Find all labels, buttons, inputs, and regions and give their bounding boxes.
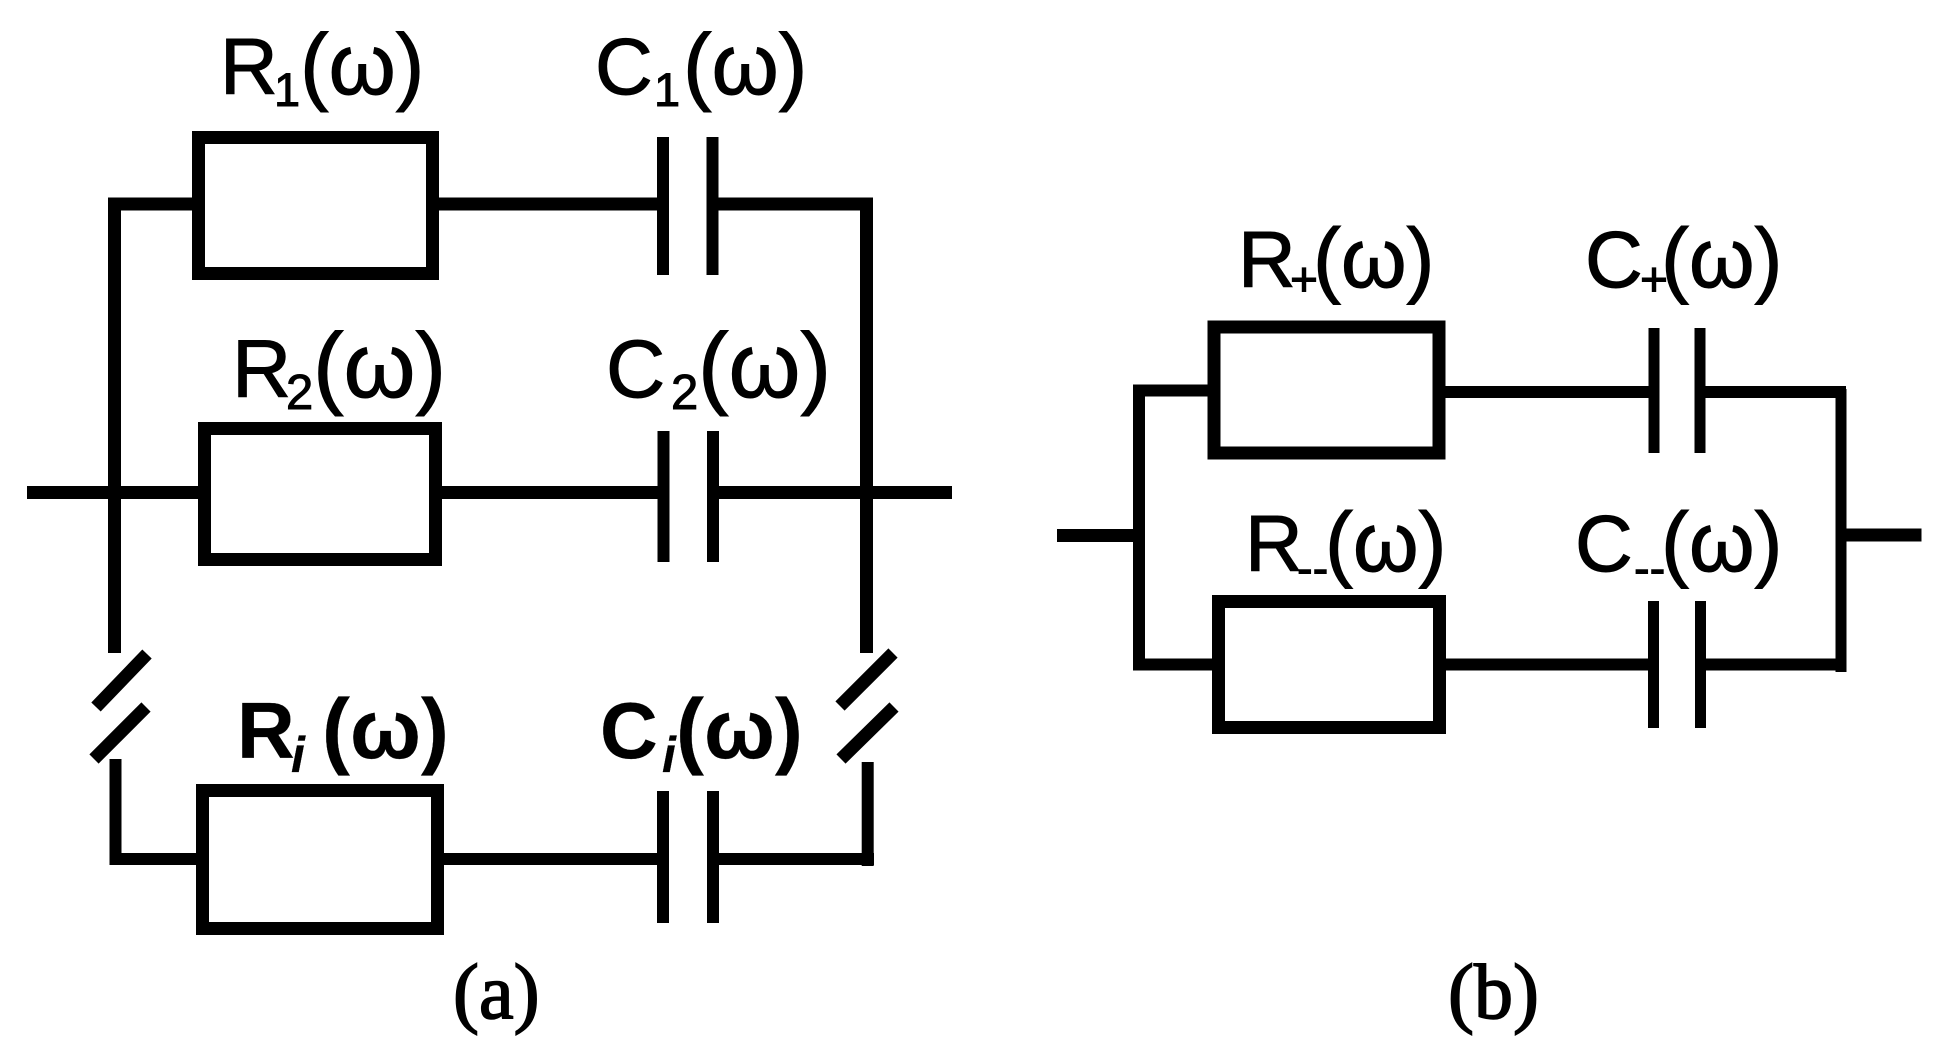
svg-text:C: C <box>595 22 653 111</box>
label R+(omega) <box>1238 211 1435 307</box>
svg-text:1: 1 <box>654 63 680 116</box>
capacitor C2 <box>664 431 714 562</box>
svg-text:(ω): (ω) <box>683 17 807 113</box>
svg-text:R: R <box>237 686 295 775</box>
wire: left rail lower segment of circuit (a) <box>110 759 122 865</box>
svg-text:C: C <box>1575 499 1633 588</box>
resistor R+ <box>1214 327 1439 453</box>
resistor Ri <box>203 791 438 929</box>
wire: top branch of (b), C+ to right rail <box>1705 386 1846 398</box>
label Ci(omega) <box>600 682 803 783</box>
capacitor C+ <box>1654 328 1700 453</box>
wire: top branch of (b), R+ to C+ <box>1445 386 1650 398</box>
svg-text:R: R <box>1238 215 1296 304</box>
svg-text:R: R <box>220 22 278 111</box>
break marks on right rail of circuit (a) <box>840 653 894 759</box>
svg-text:C: C <box>600 686 658 775</box>
svg-text:i: i <box>291 727 306 783</box>
wire: bottom branch of (b), rail to R- <box>1133 659 1216 671</box>
label C2(omega) <box>606 315 831 420</box>
label R1(omega) <box>220 17 424 116</box>
wire: left rail of circuit (b) <box>1133 385 1145 667</box>
wire: bottom branch, Ri to Ci <box>444 853 658 865</box>
node B: wire from C2 through right rail to right terminal of circuit (a) <box>719 486 952 499</box>
svg-text:2: 2 <box>671 366 698 420</box>
svg-text:2: 2 <box>286 366 313 420</box>
wire: right rail upper segment of circuit (a) <box>860 198 873 653</box>
svg-text:(ω): (ω) <box>322 682 449 776</box>
svg-text:C: C <box>1585 215 1643 304</box>
wire: middle branch, R2 to C2 <box>442 486 658 499</box>
wire: left rail upper segment of circuit (a) <box>108 198 121 653</box>
break marks on left rail of circuit (a) <box>94 654 147 759</box>
svg-text:i: i <box>662 727 677 783</box>
svg-text:(ω): (ω) <box>1661 495 1783 589</box>
svg-text:(ω): (ω) <box>313 315 446 417</box>
svg-text:(ω): (ω) <box>1661 211 1783 305</box>
wire: bottom branch of (b), C- to right rail <box>1706 659 1846 671</box>
svg-text:1: 1 <box>274 63 300 116</box>
wire: top branch of (b), rail to R+ <box>1133 385 1212 397</box>
wire: right rail of circuit (b) <box>1836 389 1847 672</box>
resistor R2 <box>205 429 436 560</box>
capacitor C- <box>1654 601 1701 728</box>
resistor R1 <box>199 138 433 274</box>
node D: right terminal wire of circuit (b) <box>1846 529 1922 542</box>
svg-text:(a): (a) <box>453 948 540 1035</box>
wire: right rail lower segment of circuit (a) <box>862 762 874 866</box>
label R2(omega) <box>232 315 446 420</box>
svg-text:(ω): (ω) <box>1325 495 1447 589</box>
svg-text:(ω): (ω) <box>676 682 803 776</box>
svg-text:--: -- <box>1297 541 1328 594</box>
node A: left terminal wire of circuit (a) <box>27 486 201 499</box>
label R--(omega) <box>1245 495 1447 594</box>
svg-text:(ω): (ω) <box>1313 211 1435 305</box>
svg-text:C: C <box>606 324 665 415</box>
wire: bottom branch, Ci to right rail <box>719 853 874 865</box>
node C: left terminal wire of circuit (b) <box>1057 529 1139 542</box>
wire: top branch, C1 to right rail <box>718 198 873 211</box>
svg-text:R: R <box>232 324 291 415</box>
resistor R- <box>1219 602 1440 728</box>
label C+(omega) <box>1585 211 1783 307</box>
capacitor C1 <box>663 137 713 275</box>
label Ri(omega) <box>237 682 449 783</box>
wire: bottom branch of (b), R- to C- <box>1446 659 1650 671</box>
capacitor Ci <box>663 791 713 923</box>
wire: top branch, rail to R1 <box>108 198 196 211</box>
label C1(omega) <box>595 17 807 116</box>
svg-text:R: R <box>1245 499 1303 588</box>
svg-text:(ω): (ω) <box>300 17 424 113</box>
wire: top branch, R1 to C1 <box>439 198 658 211</box>
label C--(omega) <box>1575 495 1783 594</box>
wire: bottom branch, rail to Ri <box>110 853 203 865</box>
svg-text:(ω): (ω) <box>698 315 831 417</box>
svg-text:(b): (b) <box>1448 948 1539 1035</box>
